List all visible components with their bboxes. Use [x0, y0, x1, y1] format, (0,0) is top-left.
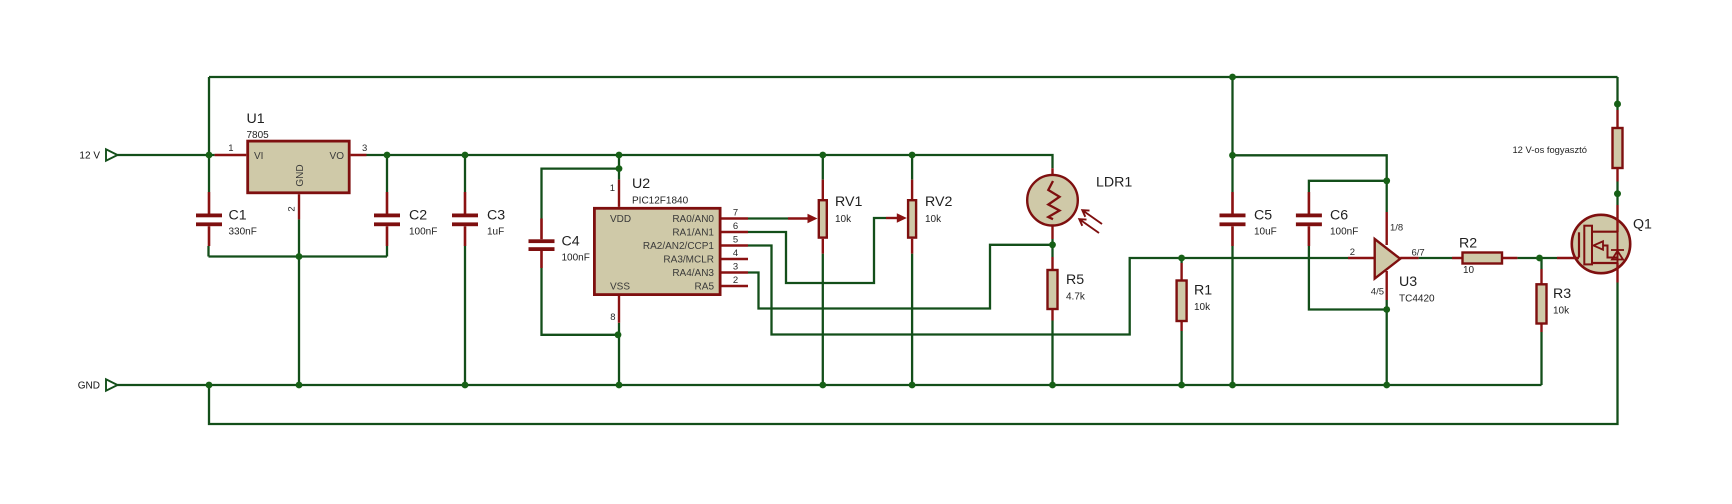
potentiometer RV1 10k	[788, 180, 862, 254]
svg-text:1: 1	[610, 183, 615, 194]
terminal 12V input	[79, 149, 117, 161]
junction C6 tee	[1383, 177, 1390, 184]
terminal GND input	[78, 379, 118, 391]
svg-text:R3: R3	[1553, 286, 1571, 302]
wire C4 top link	[542, 169, 620, 219]
microcontroller U2 PIC12F1840	[594, 176, 748, 323]
wire U3 pin 4/5 to GND rail	[1386, 300, 1388, 385]
wire C3 top lead	[464, 155, 466, 192]
junction RV2 top	[909, 152, 916, 159]
wire R3 top stub	[1540, 258, 1542, 269]
svg-text:3: 3	[362, 143, 367, 154]
svg-text:330nF: 330nF	[229, 227, 257, 238]
wire U3 pin 1/8 lead	[1386, 181, 1388, 212]
junction C5 tee	[1229, 152, 1236, 159]
resistor 12V load (12 V-os fogyaszto)	[1512, 110, 1622, 182]
wire load resistor top lead	[1616, 77, 1618, 110]
junction C4 VSS join	[615, 331, 622, 338]
svg-text:RA1/AN1: RA1/AN1	[672, 228, 714, 239]
wire R1 bottom to GND rail	[1180, 331, 1182, 385]
wire R3 bottom lead	[1540, 332, 1542, 385]
svg-text:RA0/AN0: RA0/AN0	[672, 214, 714, 225]
svg-text:U3: U3	[1399, 274, 1417, 290]
junction GND rail second rail drop	[206, 382, 213, 389]
svg-text:R5: R5	[1066, 272, 1084, 288]
wire R2 to R3 node to Q1 gate	[1517, 257, 1557, 259]
svg-text:Q1: Q1	[1633, 217, 1652, 233]
junction R1 top	[1178, 255, 1185, 262]
resistor R1 10k	[1177, 263, 1213, 331]
svg-text:VO: VO	[330, 151, 345, 162]
junction GND VSS	[616, 382, 623, 389]
wire RA4 to LDR divider	[748, 245, 1053, 309]
wire R5 bottom to GND rail	[1051, 321, 1053, 386]
wire RA0 to RV1 wiper	[748, 217, 788, 219]
svg-text:U2: U2	[632, 176, 650, 192]
svg-text:C5: C5	[1254, 208, 1272, 224]
svg-text:12 V-os fogyasztó: 12 V-os fogyasztó	[1512, 144, 1587, 155]
capacitor C5 10uF	[1220, 192, 1277, 246]
capacitor C1 330nF	[196, 192, 257, 246]
resistor R5 4.7k	[1048, 257, 1086, 321]
svg-text:100nF: 100nF	[1330, 227, 1358, 238]
wire GND second rail to Q1 source	[209, 283, 1618, 425]
wire C6 top link	[1309, 181, 1387, 192]
wire R1 top stub	[1180, 258, 1182, 263]
wire C1 top lead	[208, 155, 210, 192]
wire RA1 to RV2 wiper	[748, 218, 886, 283]
wire RA2 to U3 input	[748, 246, 1348, 335]
wire C5 bottom to GND rail	[1231, 246, 1233, 385]
svg-text:7: 7	[733, 208, 738, 219]
junction C3 top	[462, 152, 469, 159]
wire C5 top lead	[1231, 155, 1233, 192]
svg-text:12 V: 12 V	[79, 151, 100, 162]
svg-text:RA2/AN2/CCP1: RA2/AN2/CCP1	[643, 241, 715, 252]
svg-text:10k: 10k	[925, 214, 942, 225]
capacitor C3 1uF	[452, 192, 505, 246]
driver U3 TC4420	[1348, 212, 1435, 305]
svg-text:10k: 10k	[1553, 306, 1570, 317]
svg-text:2: 2	[287, 206, 298, 211]
wire local rail drop to GND	[298, 257, 300, 386]
svg-text:RV1: RV1	[835, 194, 862, 210]
potentiometer RV2 10k	[886, 180, 952, 254]
svg-text:TC4420: TC4420	[1399, 294, 1435, 305]
wire U1 GND drop	[298, 219, 300, 256]
svg-text:C1: C1	[229, 208, 247, 224]
svg-text:4.7k: 4.7k	[1066, 292, 1086, 303]
svg-text:4: 4	[733, 248, 738, 259]
svg-text:RA3/MCLR: RA3/MCLR	[663, 255, 714, 266]
junction GND R1	[1178, 382, 1185, 389]
junction U1 GND local rail	[296, 253, 303, 260]
svg-text:2: 2	[1350, 247, 1355, 258]
svg-text:10: 10	[1463, 265, 1475, 276]
wire top 12V rail	[209, 76, 1618, 78]
svg-text:LDR1: LDR1	[1096, 175, 1132, 191]
svg-text:VDD: VDD	[610, 214, 631, 225]
wire local rail C1-C2	[209, 255, 388, 257]
svg-text:4/5: 4/5	[1371, 287, 1384, 298]
svg-text:C4: C4	[562, 234, 580, 250]
svg-text:R2: R2	[1459, 236, 1477, 252]
wire 5V rail from U1 VO to LDR corner	[367, 155, 1053, 168]
resistor R3 10k	[1537, 269, 1572, 332]
wire C1 bottom to local rail	[207, 246, 209, 257]
wire 12V riser to top rail	[208, 77, 210, 155]
junction 12V at C1	[206, 152, 213, 159]
capacitor C6 100nF	[1296, 192, 1358, 246]
wire RV1 bottom to GND rail	[822, 254, 824, 385]
wire U3 output to R2	[1419, 257, 1452, 259]
wire C6 bottom link	[1309, 246, 1387, 310]
svg-text:10k: 10k	[1194, 302, 1211, 313]
junction GND RV1	[819, 382, 826, 389]
junction LDR R5 node	[1049, 241, 1056, 248]
svg-text:VSS: VSS	[610, 282, 630, 293]
svg-text:U1: U1	[247, 111, 265, 127]
wire C4 bottom link	[542, 268, 619, 335]
svg-text:PIC12F1840: PIC12F1840	[632, 196, 689, 207]
svg-text:GND: GND	[78, 381, 100, 392]
junction C6 U3 4/5 join	[1383, 306, 1390, 313]
junction GND local rail	[296, 382, 303, 389]
wire load resistor bottom to Q1 drain	[1616, 182, 1618, 206]
junction C4 top tee	[616, 165, 623, 172]
svg-text:RV2: RV2	[925, 194, 952, 210]
svg-text:3: 3	[733, 262, 738, 273]
junction GND RV2	[909, 382, 916, 389]
wire LDR bottom node	[1051, 239, 1053, 257]
wire U2 VSS to GND rail	[618, 323, 620, 385]
junction top rail driver drop	[1229, 74, 1236, 81]
regulator U1 7805	[215, 111, 368, 219]
wire 12V drop to driver net	[1231, 77, 1233, 155]
svg-text:C2: C2	[409, 208, 427, 224]
svg-text:1: 1	[228, 143, 233, 154]
svg-text:R1: R1	[1194, 283, 1212, 299]
wire RV2 bottom to GND rail	[911, 254, 913, 385]
junction U2 VDD	[616, 152, 623, 159]
wire GND rail	[118, 384, 1542, 386]
svg-text:10uF: 10uF	[1254, 227, 1277, 238]
capacitor C4 100nF	[529, 219, 590, 269]
svg-text:7805: 7805	[247, 130, 270, 141]
photoresistor LDR1	[1027, 168, 1132, 239]
svg-text:8: 8	[610, 312, 615, 323]
transistor Q1 MOSFET	[1557, 205, 1652, 283]
junction GND R5	[1049, 382, 1056, 389]
svg-text:5: 5	[733, 235, 738, 246]
wire C3 bottom to GND rail	[464, 246, 466, 385]
svg-text:6/7: 6/7	[1412, 248, 1425, 259]
svg-text:RA4/AN3: RA4/AN3	[672, 268, 714, 279]
svg-text:10k: 10k	[835, 214, 852, 225]
wire driver net horizontal	[1233, 155, 1387, 181]
svg-text:100nF: 100nF	[562, 253, 590, 264]
wire C2 bottom lead	[386, 246, 388, 257]
svg-text:2: 2	[733, 275, 738, 286]
wire RV2 top lead	[911, 155, 913, 180]
svg-text:RA5: RA5	[695, 282, 715, 293]
resistor R2 10	[1452, 236, 1517, 277]
junction load resistor top	[1614, 101, 1621, 108]
wire U2 VDD branch	[618, 155, 620, 180]
svg-text:1/8: 1/8	[1390, 223, 1403, 234]
junction GND U3	[1383, 382, 1390, 389]
junction C2 top	[384, 152, 391, 159]
svg-text:100nF: 100nF	[409, 227, 437, 238]
capacitor C2 100nF	[374, 192, 437, 246]
junction R3 top	[1536, 255, 1543, 262]
junction RV1 top	[819, 152, 826, 159]
svg-text:C3: C3	[487, 208, 505, 224]
svg-text:GND: GND	[295, 164, 306, 186]
wire C2 top lead	[386, 155, 388, 192]
svg-text:C6: C6	[1330, 208, 1348, 224]
svg-text:6: 6	[733, 221, 738, 232]
svg-text:VI: VI	[254, 151, 263, 162]
wire RV1 top lead	[822, 155, 824, 180]
junction GND C3	[462, 382, 469, 389]
junction GND C5	[1229, 382, 1236, 389]
wire 12V input horizontal	[118, 154, 215, 156]
junction load resistor bottom	[1614, 190, 1621, 197]
svg-text:1uF: 1uF	[487, 227, 504, 238]
